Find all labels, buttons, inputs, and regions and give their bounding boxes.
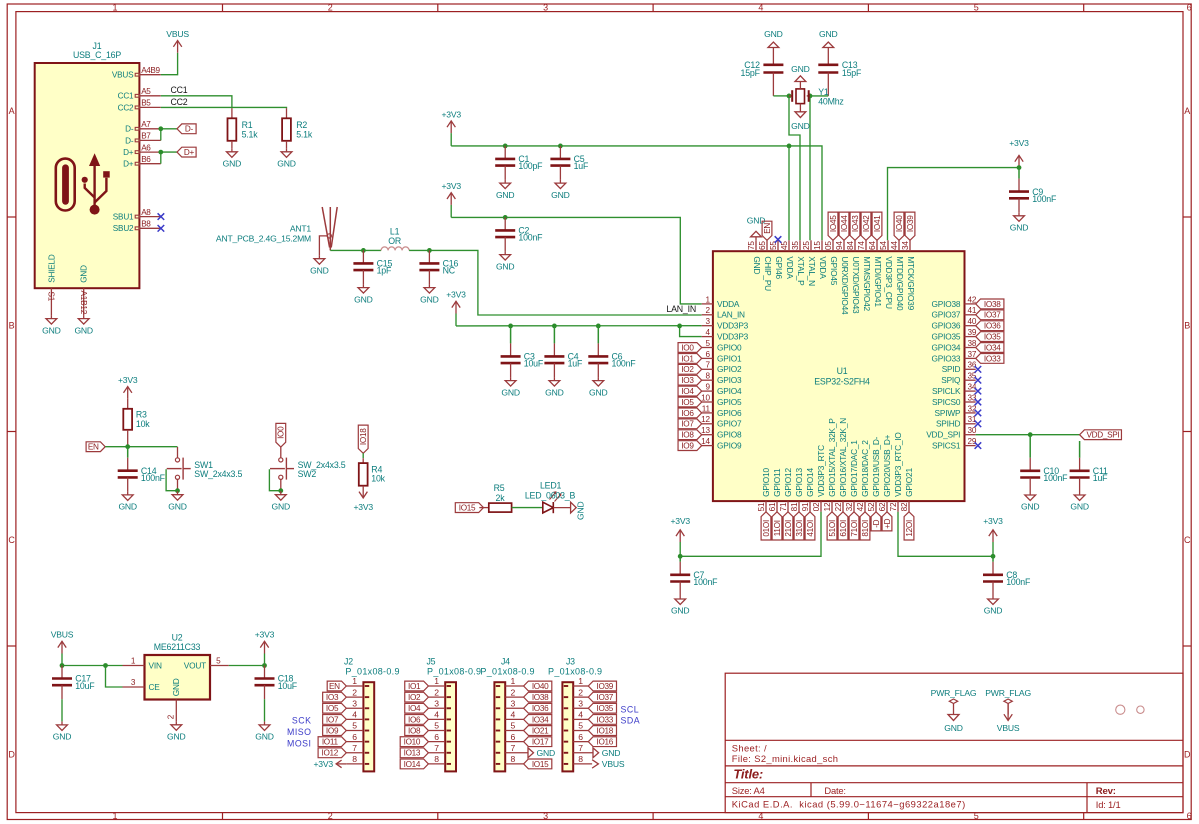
svg-text:GND: GND bbox=[310, 265, 329, 275]
svg-text:CC2: CC2 bbox=[118, 103, 134, 112]
power +3V3 rail1 bbox=[441, 109, 461, 133]
svg-text:KiCad E.D.A. kicad (5.99.0−11: KiCad E.D.A. kicad (5.99.0−11674−g69322a… bbox=[732, 799, 966, 810]
U1 pin 42 GPIO38 bbox=[932, 295, 977, 309]
U1 pin 34 SPICLK bbox=[932, 383, 977, 397]
ground at R1 bbox=[223, 148, 242, 168]
svg-text:71: 71 bbox=[779, 502, 788, 511]
svg-text:GPIO6: GPIO6 bbox=[717, 408, 742, 418]
svg-text:CHIP_PU: CHIP_PU bbox=[763, 256, 773, 291]
svg-text:GND: GND bbox=[575, 502, 585, 521]
svg-text:MTMS/GPIO42: MTMS/GPIO42 bbox=[862, 256, 872, 311]
J3 pin 2 bbox=[573, 687, 588, 697]
U1 pin 5 GPIO0 bbox=[702, 339, 742, 353]
svg-text:A1B12: A1B12 bbox=[79, 291, 88, 315]
svg-text:VDD3P3: VDD3P3 bbox=[717, 321, 749, 331]
svg-text:7: 7 bbox=[434, 743, 439, 753]
J5 pin 2 bbox=[428, 687, 445, 697]
J5 pin 1 bbox=[428, 676, 445, 686]
hierarchical label IO8 bbox=[678, 430, 702, 440]
svg-text:P_01x08-0.9: P_01x08-0.9 bbox=[345, 667, 399, 677]
hierarchical label IO15 at J4 bbox=[524, 759, 552, 769]
J4 pin 4 bbox=[505, 710, 523, 720]
svg-text:05: 05 bbox=[824, 241, 833, 250]
connector J3 P_01x08-0.9 body bbox=[548, 657, 602, 772]
svg-text:IO3: IO3 bbox=[326, 693, 339, 702]
hierarchical label IO33 bbox=[976, 354, 1004, 364]
svg-text:GPIO45: GPIO45 bbox=[829, 256, 839, 285]
svg-text:GND: GND bbox=[80, 265, 89, 283]
hierarchical label IO37 bbox=[976, 310, 1004, 320]
ground at C18 bbox=[255, 721, 274, 741]
ground at C15 bbox=[354, 284, 373, 304]
U1 pin 21 GPIO15/XTAL_32K_P bbox=[823, 418, 837, 512]
svg-text:40: 40 bbox=[968, 317, 977, 326]
svg-text:GPIO37: GPIO37 bbox=[932, 310, 961, 320]
resistor R3 10k bbox=[123, 399, 150, 447]
svg-text:VBUS: VBUS bbox=[166, 29, 189, 39]
wire bbox=[679, 542, 681, 556]
svg-text:IO16: IO16 bbox=[597, 738, 614, 747]
svg-text:PWR_FLAG: PWR_FLAG bbox=[931, 688, 977, 698]
svg-text:6: 6 bbox=[352, 732, 357, 742]
wire bbox=[888, 168, 1020, 241]
U1 pin 38 GPIO34 bbox=[932, 339, 977, 353]
svg-text:IO12: IO12 bbox=[322, 749, 339, 758]
svg-text:1: 1 bbox=[112, 3, 117, 13]
svg-text:GND: GND bbox=[764, 29, 783, 39]
hierarchical label IO18 at J3 bbox=[588, 726, 616, 736]
svg-text:1: 1 bbox=[511, 676, 516, 686]
svg-text:IO7: IO7 bbox=[681, 420, 694, 429]
svg-text:94: 94 bbox=[835, 241, 844, 250]
U1 pin 1 VDDA bbox=[702, 295, 740, 309]
svg-text:S1: S1 bbox=[47, 292, 56, 302]
power +3V3 below R4 bbox=[353, 486, 373, 512]
svg-text:GPIO7: GPIO7 bbox=[717, 419, 742, 429]
svg-text:54: 54 bbox=[879, 241, 888, 250]
hierarchical label EN bbox=[86, 442, 105, 452]
U1 pin 37 GPIO33 bbox=[932, 350, 977, 364]
svg-text:IO40: IO40 bbox=[895, 215, 904, 232]
J5 pin 5 bbox=[428, 721, 445, 731]
wire bbox=[330, 249, 381, 251]
hierarchical label IO0 at SW2 bbox=[276, 423, 286, 447]
svg-text:91: 91 bbox=[801, 502, 810, 511]
svg-text:GPIO0: GPIO0 bbox=[717, 342, 742, 352]
U1 pin 26 GPIO20/USB_D+ bbox=[878, 434, 892, 511]
svg-text:GPIO11: GPIO11 bbox=[772, 468, 782, 497]
svg-text:CC1: CC1 bbox=[118, 92, 134, 101]
wire bbox=[455, 314, 457, 326]
inductor L1 0R bbox=[381, 226, 409, 250]
wire bbox=[229, 665, 265, 667]
svg-text:44: 44 bbox=[890, 241, 899, 250]
svg-text:IO15: IO15 bbox=[459, 504, 476, 513]
U2 reference label bbox=[154, 632, 201, 652]
svg-text:IO36: IO36 bbox=[532, 704, 549, 713]
svg-text:IO34: IO34 bbox=[984, 343, 1001, 352]
svg-text:VDD3P3: VDD3P3 bbox=[717, 332, 749, 342]
hierarchical label IO9 bbox=[678, 441, 702, 451]
power +3V3 rail3 bbox=[446, 290, 466, 314]
U1 pin 9 GPIO4 bbox=[702, 383, 742, 397]
J2 pin 4 bbox=[346, 710, 363, 720]
U1 pin 23 GPIO17/DAC_1 bbox=[845, 440, 859, 512]
ground at C16 bbox=[420, 284, 439, 304]
svg-text:IO39: IO39 bbox=[597, 682, 614, 691]
svg-text:1: 1 bbox=[352, 676, 357, 686]
hierarchical label IO37 at J3 bbox=[588, 692, 616, 702]
svg-text:IO42: IO42 bbox=[862, 215, 871, 232]
svg-text:SPICS1: SPICS1 bbox=[932, 441, 961, 451]
svg-text:CC2: CC2 bbox=[171, 97, 188, 107]
svg-text:11: 11 bbox=[702, 404, 711, 413]
svg-text:IO2: IO2 bbox=[408, 693, 421, 702]
svg-text:GND: GND bbox=[167, 732, 186, 742]
J1 pin B6 D+ bbox=[123, 155, 161, 169]
svg-text:IO38: IO38 bbox=[532, 693, 549, 702]
ground at C7 bbox=[671, 596, 690, 616]
svg-text:10uF: 10uF bbox=[278, 681, 298, 691]
svg-text:100nF: 100nF bbox=[693, 577, 718, 587]
svg-text:P_01x08-0.9: P_01x08-0.9 bbox=[427, 667, 481, 677]
svg-text:100pF: 100pF bbox=[518, 161, 543, 171]
svg-text:IO1: IO1 bbox=[408, 682, 421, 691]
wire bbox=[105, 446, 177, 448]
svg-text:14: 14 bbox=[701, 437, 710, 446]
svg-text:-D: -D bbox=[872, 519, 881, 527]
U1 pin 39 GPIO35 bbox=[932, 328, 977, 342]
svg-text:IO4: IO4 bbox=[408, 704, 421, 713]
svg-text:Rev:: Rev: bbox=[1096, 786, 1116, 797]
switch SW1 SW_2x4x3.5 bbox=[166, 447, 242, 493]
junction bbox=[103, 663, 108, 668]
ground at C10 bbox=[1021, 492, 1040, 512]
svg-text:EN: EN bbox=[329, 682, 340, 691]
J5 pin 8 bbox=[428, 754, 445, 764]
junction bbox=[508, 324, 513, 329]
J4 pin 5 bbox=[505, 721, 523, 731]
ground at C3 bbox=[501, 377, 520, 397]
U2 pin 2 GND bbox=[167, 678, 182, 721]
svg-text:5: 5 bbox=[974, 3, 979, 13]
svg-text:51OI: 51OI bbox=[828, 520, 837, 537]
svg-text:100nF: 100nF bbox=[518, 233, 543, 243]
hierarchical label IO16 bbox=[838, 512, 848, 540]
svg-text:3: 3 bbox=[352, 698, 357, 708]
U1 pin 22 GPIO16/XTAL_32K_N bbox=[834, 418, 848, 512]
svg-text:21OI: 21OI bbox=[784, 520, 793, 537]
svg-text:VBUS: VBUS bbox=[51, 630, 74, 640]
hierarchical label IO1 at J5 bbox=[405, 681, 429, 691]
svg-text:VIN: VIN bbox=[149, 660, 162, 670]
svg-text:4: 4 bbox=[434, 710, 439, 720]
svg-text:15pF: 15pF bbox=[741, 68, 761, 78]
junction bbox=[787, 144, 792, 149]
svg-text:15pF: 15pF bbox=[842, 68, 862, 78]
svg-text:82: 82 bbox=[900, 502, 909, 511]
svg-text:39: 39 bbox=[968, 328, 977, 337]
svg-text:75: 75 bbox=[747, 241, 756, 250]
junction bbox=[158, 126, 163, 131]
U1 pin 45 VDD3P3_CPU bbox=[879, 240, 894, 309]
svg-text:+3V3: +3V3 bbox=[118, 375, 138, 385]
svg-text:4: 4 bbox=[758, 3, 763, 13]
wire bbox=[450, 205, 452, 218]
J4 pin 6 bbox=[505, 732, 523, 742]
svg-text:PWR_FLAG: PWR_FLAG bbox=[985, 688, 1031, 698]
U1 pin 54 VDDA bbox=[780, 240, 795, 279]
U1 pin 44 MTDD/GPIO40 bbox=[890, 240, 905, 311]
capacitor C9 100nF bbox=[1009, 168, 1057, 213]
svg-text:6: 6 bbox=[706, 350, 711, 359]
svg-text:R1: R1 bbox=[242, 120, 253, 130]
svg-text:SW2: SW2 bbox=[298, 469, 317, 479]
svg-text:72: 72 bbox=[889, 502, 898, 511]
svg-text:GND: GND bbox=[501, 387, 520, 397]
svg-text:+3V3: +3V3 bbox=[441, 181, 461, 191]
wire bbox=[450, 133, 452, 146]
wire bbox=[809, 96, 811, 240]
svg-text:4: 4 bbox=[706, 328, 711, 337]
svg-text:IO9: IO9 bbox=[326, 726, 339, 735]
hierarchical label IO34 bbox=[976, 343, 1004, 353]
svg-text:GPIO8: GPIO8 bbox=[717, 430, 742, 440]
svg-text:9: 9 bbox=[706, 383, 711, 392]
J2 pin 5 bbox=[346, 721, 363, 731]
svg-text:GND: GND bbox=[42, 325, 61, 335]
junction bbox=[787, 94, 792, 99]
svg-text:GPIO15/XTAL_32K_P: GPIO15/XTAL_32K_P bbox=[827, 418, 837, 497]
hierarchical label D+ bbox=[177, 147, 196, 157]
svg-text:A7: A7 bbox=[141, 120, 151, 129]
J4 pin 2 bbox=[505, 687, 523, 697]
junction bbox=[361, 248, 366, 253]
capacitor C5 1uF bbox=[550, 146, 589, 180]
J1 pin B8 SBU2 bbox=[113, 220, 161, 234]
ground at SW2 bbox=[272, 491, 291, 511]
hierarchical label IO10 at J5 bbox=[400, 737, 428, 747]
svg-text:2: 2 bbox=[511, 687, 516, 697]
svg-text:100nF: 100nF bbox=[1032, 194, 1057, 204]
IC U2 ME6211C33 body bbox=[145, 655, 211, 700]
svg-text:IO15: IO15 bbox=[532, 760, 549, 769]
svg-text:IO1: IO1 bbox=[681, 354, 694, 363]
wire bbox=[512, 507, 543, 509]
svg-text:2: 2 bbox=[167, 714, 176, 719]
J2 pin 8 bbox=[346, 754, 363, 764]
svg-text:D: D bbox=[1184, 750, 1191, 760]
svg-text:IO6: IO6 bbox=[681, 409, 694, 418]
svg-text:GND: GND bbox=[53, 732, 72, 742]
svg-text:3: 3 bbox=[578, 698, 583, 708]
svg-text:VDDA: VDDA bbox=[785, 256, 795, 279]
hierarchical label IO17 bbox=[849, 512, 859, 540]
svg-text:J3: J3 bbox=[566, 657, 575, 667]
capacitor C18 10uF bbox=[255, 666, 298, 700]
junction bbox=[596, 324, 601, 329]
resistor R5 2k bbox=[479, 483, 511, 512]
svg-text:41: 41 bbox=[968, 306, 977, 315]
svg-text:33: 33 bbox=[968, 393, 977, 402]
ground above C12 bbox=[764, 29, 783, 51]
J3 pin 6 bbox=[573, 732, 588, 742]
svg-text:8: 8 bbox=[511, 754, 516, 764]
svg-text:Size: A4: Size: A4 bbox=[732, 785, 765, 796]
svg-text:D-: D- bbox=[185, 125, 194, 134]
hierarchical label IO36 bbox=[976, 321, 1004, 331]
junction bbox=[158, 150, 163, 155]
svg-text:A4B9: A4B9 bbox=[141, 66, 160, 75]
svg-text:6: 6 bbox=[434, 732, 439, 742]
svg-text:GPIO17/DAC_1: GPIO17/DAC_1 bbox=[849, 440, 859, 497]
J1 pin A7 D- bbox=[125, 120, 161, 134]
svg-text:SHIELD: SHIELD bbox=[47, 254, 56, 283]
svg-text:+3V3: +3V3 bbox=[255, 630, 275, 640]
svg-text:USB_C_16P: USB_C_16P bbox=[73, 50, 121, 60]
U1 pin 6 GPIO1 bbox=[702, 350, 742, 364]
svg-text:ESP32-S2FH4: ESP32-S2FH4 bbox=[814, 376, 870, 386]
svg-text:GND: GND bbox=[791, 64, 810, 74]
svg-text:3: 3 bbox=[131, 678, 136, 687]
switch SW2 SW_2x4x3.5 bbox=[269, 447, 345, 493]
crystal Y1 40Mhz bbox=[789, 87, 844, 107]
junction bbox=[262, 663, 267, 668]
U1 pin 33 SPICS0 bbox=[932, 393, 977, 407]
junction bbox=[678, 554, 683, 559]
J4 pin 1 bbox=[505, 676, 523, 686]
svg-text:IO2: IO2 bbox=[681, 365, 694, 374]
svg-text:GND: GND bbox=[168, 501, 187, 511]
hierarchical label IO17 at J4 bbox=[524, 737, 552, 747]
U1 pin 4 VDD3P3 bbox=[702, 328, 749, 342]
svg-text:74: 74 bbox=[857, 241, 866, 250]
hierarchical label IO6 at J5 bbox=[405, 714, 429, 724]
svg-text:3: 3 bbox=[706, 317, 711, 326]
svg-text:ANT1: ANT1 bbox=[290, 223, 312, 233]
IC U1 ESP32-S2FH4 body bbox=[713, 251, 965, 501]
U1 pin 40 GPIO36 bbox=[932, 317, 977, 331]
capacitor C7 100nF bbox=[670, 556, 718, 595]
svg-text:IO43: IO43 bbox=[851, 215, 860, 232]
svg-text:5: 5 bbox=[511, 721, 516, 731]
svg-text:100nF: 100nF bbox=[141, 473, 166, 483]
hierarchical label IO9 at J2 bbox=[323, 726, 347, 736]
svg-text:B: B bbox=[9, 321, 15, 331]
svg-text:IO4: IO4 bbox=[681, 387, 694, 396]
svg-text:81: 81 bbox=[790, 502, 799, 511]
no-connect bbox=[975, 377, 982, 384]
J3 pin 3 bbox=[573, 698, 588, 708]
connector J4 P_01x08-0.9 body bbox=[480, 657, 534, 772]
power VBUS at C17 bbox=[51, 630, 74, 654]
wire bbox=[409, 250, 702, 315]
svg-text:62: 62 bbox=[878, 502, 887, 511]
capacitor C15 1pF bbox=[353, 250, 392, 284]
svg-text:13: 13 bbox=[701, 426, 710, 435]
svg-text:6: 6 bbox=[1187, 3, 1192, 13]
svg-text:GPIO21: GPIO21 bbox=[904, 468, 914, 497]
svg-text:+3V3: +3V3 bbox=[446, 290, 466, 300]
svg-text:+3V3: +3V3 bbox=[1009, 138, 1029, 148]
title block Title bbox=[733, 766, 763, 781]
hierarchical label IO14 at J5 bbox=[400, 759, 428, 769]
svg-text:IO7: IO7 bbox=[326, 715, 339, 724]
svg-text:IO44: IO44 bbox=[840, 215, 849, 232]
svg-text:P_01x08-0.9: P_01x08-0.9 bbox=[548, 667, 602, 677]
hierarchical label IO7 at J2 bbox=[323, 714, 347, 724]
hierarchical label IO35 at J3 bbox=[588, 703, 616, 713]
hierarchical label EN at J2 bbox=[327, 681, 346, 691]
svg-text:GND: GND bbox=[420, 294, 439, 304]
svg-text:IO17: IO17 bbox=[532, 738, 549, 747]
hierarchical label IO35 bbox=[976, 332, 1004, 342]
net note SCK MISO MOSI bbox=[287, 715, 311, 748]
power +3V3 at C7 bbox=[670, 516, 690, 542]
hierarchical label IO45 bbox=[828, 212, 838, 240]
hierarchical label IO34 at J4 bbox=[524, 714, 552, 724]
svg-text:38: 38 bbox=[968, 339, 977, 348]
U1 pin 16 GPIO11 bbox=[768, 468, 782, 512]
junction bbox=[558, 144, 563, 149]
svg-text:GND: GND bbox=[602, 748, 621, 758]
hierarchical label IO18 at R4 bbox=[358, 425, 368, 453]
U1 pin 31 SPIHD bbox=[936, 415, 977, 429]
wire bbox=[161, 128, 177, 130]
svg-text:32: 32 bbox=[968, 404, 977, 413]
svg-text:3: 3 bbox=[434, 698, 439, 708]
U1 reference label bbox=[814, 366, 870, 387]
svg-text:GND: GND bbox=[551, 190, 570, 200]
capacitor C3 10uF bbox=[501, 326, 544, 377]
svg-text:+3V3: +3V3 bbox=[670, 516, 690, 526]
U2 pin 5 VOUT bbox=[184, 656, 229, 670]
svg-text:GND: GND bbox=[272, 501, 291, 511]
svg-text:SPIQ: SPIQ bbox=[941, 375, 961, 385]
connector J1 USB_C_16P body bbox=[35, 63, 140, 288]
hierarchical label IO38 at J4 bbox=[524, 692, 552, 702]
U1 pin 49 U0RXD/GPIO44 bbox=[835, 240, 850, 315]
hierarchical label IO2 bbox=[678, 364, 702, 374]
J3 pin 5 bbox=[573, 721, 588, 731]
U1 pin 35 SPIQ bbox=[941, 372, 977, 386]
svg-text:12OI: 12OI bbox=[905, 520, 914, 537]
J1 pin B5 CC2 bbox=[118, 99, 161, 113]
ground at SW1 bbox=[168, 491, 187, 511]
U1 pin 8 GPIO3 bbox=[702, 372, 742, 386]
U1 pin 13 GPIO8 bbox=[701, 426, 742, 440]
svg-text:IO21: IO21 bbox=[532, 726, 549, 735]
resistor R2 5.1k bbox=[282, 108, 313, 148]
svg-text:GND: GND bbox=[819, 29, 838, 39]
no-connect SBU1 bbox=[158, 213, 165, 220]
svg-text:10k: 10k bbox=[136, 419, 150, 429]
svg-text:MISO: MISO bbox=[287, 727, 311, 737]
power +3V3 at C9 bbox=[1009, 138, 1029, 167]
svg-text:1uF: 1uF bbox=[574, 161, 589, 171]
svg-text:GPIO36: GPIO36 bbox=[932, 321, 961, 331]
net label LAN_IN bbox=[666, 304, 696, 314]
svg-text:SCL: SCL bbox=[621, 704, 640, 714]
svg-text:10uF: 10uF bbox=[75, 681, 95, 691]
svg-text:C: C bbox=[1184, 535, 1191, 545]
svg-text:3: 3 bbox=[543, 811, 548, 821]
hierarchical label IO10 bbox=[761, 512, 771, 540]
connector J5 P_01x08-0.9 body bbox=[426, 657, 481, 772]
net label CC1 bbox=[171, 85, 188, 95]
svg-text:Sheet: /: Sheet: / bbox=[732, 742, 767, 753]
svg-text:SCK: SCK bbox=[292, 715, 312, 725]
